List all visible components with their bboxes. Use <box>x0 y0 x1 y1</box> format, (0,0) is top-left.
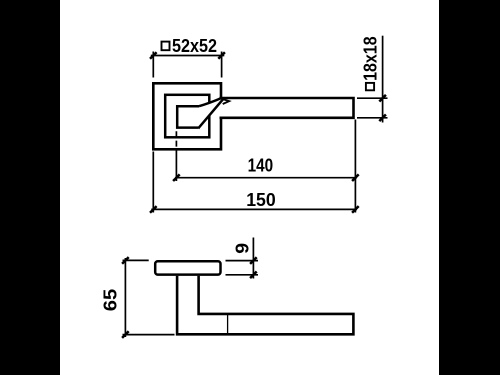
dimension 18x18: top extension line <box>357 97 388 99</box>
dimension 18x18: dimension line <box>382 36 384 123</box>
svg-text:140: 140 <box>248 155 274 175</box>
dimension 18x18: lower slash arrow <box>379 115 386 122</box>
dimension 65: bottom slash arrow <box>122 331 129 338</box>
front view: lever grip bar (white fill, open left side) <box>220 98 354 118</box>
svg-text:18x18: 18x18 <box>361 36 381 81</box>
dimension 65: top extension line <box>123 259 149 261</box>
front view: wedge upper (shallow) edge <box>199 98 222 106</box>
svg-text:150: 150 <box>246 190 276 210</box>
dimension 9: upper slash arrow <box>250 257 257 264</box>
dimension 140: left extension line (from dashed axis) <box>175 149 177 181</box>
dimension 9: dimension line <box>252 238 254 279</box>
side view: rose plate <box>155 261 220 274</box>
dimension 52x52: dimension line <box>151 55 225 57</box>
front view: grip end sliver triangle <box>222 99 229 104</box>
dimension 52x52: left extension line <box>152 52 154 78</box>
front view: neck square (left, top, bottom edges) <box>177 106 199 127</box>
dimension 140: dimension line <box>175 177 357 179</box>
dimension 9: bottom extension line <box>226 274 259 276</box>
front view: rose outer square <box>153 83 221 149</box>
dimension 18x18: bottom extension line <box>357 117 388 119</box>
dimension 140: right slash arrow <box>352 174 359 181</box>
front view: dashed axis line below neck <box>175 131 177 149</box>
front view: rose inner square <box>165 95 209 138</box>
front view: wedge lower (steep) edge <box>198 98 224 128</box>
dimension 65: top slash arrow <box>122 257 129 264</box>
left black pillar bar <box>0 0 60 375</box>
svg-text:52x52: 52x52 <box>172 36 217 56</box>
label 18x18 square glyph <box>366 83 374 90</box>
dimension 9: top extension line <box>226 260 259 262</box>
dimension 150: left extension line <box>152 152 154 213</box>
dimension 150: right slash arrow <box>352 206 359 213</box>
dimension 9: lower slash arrow <box>250 272 257 279</box>
dimension 18x18: upper slash arrow <box>379 95 386 102</box>
dimension 52x52: right extension line <box>221 52 223 78</box>
side view: grip joint line <box>227 315 229 334</box>
svg-text:65: 65 <box>101 289 121 312</box>
label 52x52 square glyph <box>162 42 170 51</box>
svg-text:9: 9 <box>233 243 253 254</box>
front view: lever wedge transition (white fill) <box>198 98 222 128</box>
dimension 65: dimension line <box>124 258 126 337</box>
dimension 140: left slash arrow <box>173 174 180 181</box>
dimension 150: dimension line <box>151 208 357 210</box>
dimension 52x52: right slash arrow <box>218 52 225 59</box>
right black pillar bar <box>439 0 500 375</box>
dimension 150: left slash arrow <box>150 206 157 213</box>
side view: neck and grip L-outline <box>177 276 353 335</box>
shared right extension line for 140/150 <box>354 120 356 213</box>
dimension 52x52: left slash arrow <box>150 52 157 59</box>
dimension 65: bottom extension line <box>123 334 175 336</box>
